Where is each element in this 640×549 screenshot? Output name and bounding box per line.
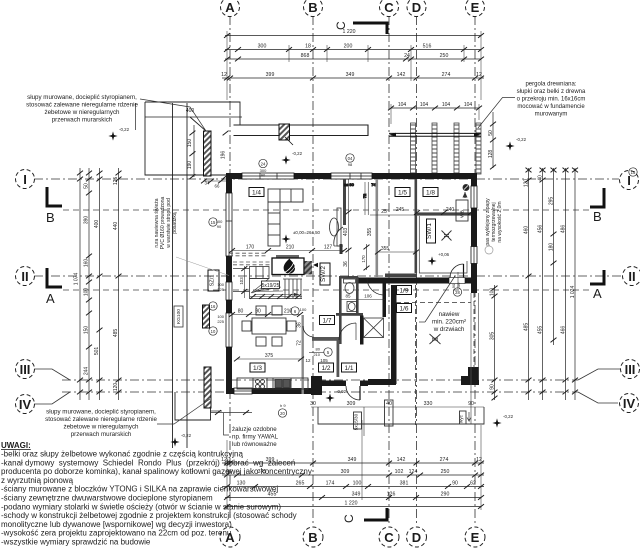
svg-text:40: 40	[538, 175, 544, 181]
svg-text:-wszystkie wymiary sprawdzić n: -wszystkie wymiary sprawdzić na budowie	[1, 538, 151, 547]
circle D top	[407, 0, 426, 17]
svg-text:36: 36	[297, 322, 303, 328]
sofa L-shaped	[268, 189, 303, 246]
svg-text:5x19/25: 5x19/25	[262, 283, 280, 289]
axis B vertical	[312, 16, 314, 526]
svg-text:o przekroju min. 16x16cm: o przekroju min. 16x16cm	[517, 97, 586, 103]
svg-text:180: 180	[549, 243, 555, 252]
svg-text:50: 50	[488, 130, 494, 136]
vestibule pier	[311, 376, 322, 395]
axis IV leader right	[578, 392, 618, 403]
svg-text:z wyrzutnią pionową: z wyrzutnią pionową	[1, 476, 74, 485]
bottom-left steps outline	[175, 392, 211, 420]
svg-text:IV: IV	[623, 396, 636, 411]
svg-text:62: 62	[470, 481, 476, 487]
svg-text:-ściany murowane z bloczków YT: -ściany murowane z bloczków YTONG i SILK…	[1, 485, 278, 494]
svg-text:C: C	[342, 514, 356, 523]
axis E vertical	[474, 16, 476, 526]
svg-text:16: 16	[211, 304, 216, 309]
terrace dim line	[145, 116, 242, 118]
svg-text:C: C	[384, 0, 394, 15]
TV wall element right side of living	[330, 208, 342, 246]
stairs label	[262, 281, 280, 289]
svg-text:B: B	[308, 0, 317, 15]
svg-text:-ściany zewnętrzne dwuwarstwow: -ściany zewnętrzne dwuwarstwowe docieplo…	[1, 494, 213, 503]
svg-text:128: 128	[488, 150, 494, 159]
svg-text:1/1: 1/1	[344, 365, 353, 372]
svg-text:485: 485	[524, 323, 530, 332]
svg-text:66: 66	[215, 184, 220, 189]
svg-text:120: 120	[524, 179, 530, 188]
axis IV horizontal	[62, 391, 578, 393]
svg-text:1 024: 1 024	[570, 286, 576, 299]
note zaluzje	[232, 426, 279, 448]
dining door arc	[303, 326, 314, 337]
dimension chain right	[493, 112, 575, 400]
gray duct note	[154, 197, 178, 250]
svg-text:SZ/1: SZ/1	[210, 275, 216, 287]
svg-text:90: 90	[261, 173, 266, 178]
svg-text:349: 349	[346, 72, 355, 78]
svg-text:1/3: 1/3	[253, 365, 262, 372]
svg-text:170: 170	[361, 255, 366, 263]
svg-text:min. 220cm²: min. 220cm²	[432, 319, 466, 326]
svg-text:15: 15	[631, 170, 636, 175]
svg-text:225: 225	[217, 287, 224, 292]
svg-text:455: 455	[538, 326, 544, 335]
circle II left	[16, 267, 35, 286]
marker C bottom	[364, 508, 387, 520]
svg-text:1/7: 1/7	[322, 318, 331, 325]
svg-text:24: 24	[261, 162, 266, 167]
shower	[364, 318, 384, 338]
circle C bottom	[379, 527, 399, 547]
circle III right	[621, 360, 640, 379]
svg-text:400: 400	[94, 220, 100, 229]
left path strip lines	[172, 103, 174, 448]
svg-text:lub równoważne: lub równoważne	[232, 441, 277, 448]
circle D bottom	[407, 527, 427, 547]
svg-text:90: 90	[490, 384, 496, 390]
svg-text:456: 456	[538, 225, 544, 234]
svg-text:+0,06: +0,06	[438, 252, 450, 257]
closet SZ1	[233, 266, 250, 298]
svg-text:355: 355	[381, 246, 390, 252]
svg-text:250: 250	[440, 53, 449, 59]
svg-text:309: 309	[341, 469, 350, 475]
svg-text:żaluzje ozdobne: żaluzje ozdobne	[232, 426, 277, 433]
entrance porch steps	[311, 400, 484, 436]
left wall	[226, 173, 232, 394]
svg-text:102: 102	[395, 469, 404, 475]
door jamb stairs	[340, 244, 343, 254]
svg-text:A: A	[46, 291, 55, 306]
svg-text:90: 90	[217, 224, 222, 229]
svg-text:80: 80	[238, 309, 244, 315]
circle E bottom	[465, 527, 485, 547]
svg-text:125: 125	[113, 177, 119, 186]
svg-text:przerwach murarskich: przerwach murarskich	[71, 431, 132, 438]
circle B top	[304, 0, 323, 17]
svg-text:D: D	[412, 530, 421, 545]
svg-text:225: 225	[217, 319, 224, 324]
svg-text:330: 330	[424, 401, 433, 407]
svg-text:90: 90	[255, 309, 261, 315]
svg-text:200: 200	[344, 44, 353, 50]
svg-text:245: 245	[396, 207, 405, 213]
svg-text:100: 100	[353, 481, 362, 487]
svg-text:E: E	[471, 0, 480, 15]
level marks	[108, 127, 526, 447]
svg-text:250: 250	[441, 469, 450, 475]
pergola dim row	[391, 107, 479, 109]
window top 1	[242, 173, 294, 179]
top wall	[226, 173, 477, 179]
svg-text:85: 85	[345, 294, 351, 299]
svg-text:-wysokość zera projektu zaproj: -wysokość zera projektu zaprojektowano n…	[1, 529, 231, 538]
svg-text:stosować zalewane nieregularne: stosować zalewane nieregularne rdzenie	[45, 416, 157, 423]
svg-text:150: 150	[187, 139, 193, 148]
pergola beam	[389, 132, 481, 134]
svg-text:305: 305	[490, 332, 496, 341]
window right	[471, 186, 477, 208]
retaining wall band	[234, 125, 369, 136]
svg-text:1/8: 1/8	[426, 190, 435, 197]
wall living/hall	[343, 179, 346, 225]
svg-text:SW/1: SW/1	[426, 223, 433, 239]
svg-text:100: 100	[490, 288, 496, 297]
svg-text:E: E	[471, 530, 480, 545]
svg-text:-0,22: -0,22	[292, 151, 303, 156]
axis IV leader left	[34, 392, 70, 404]
svg-text:żebetowe w nieregularnych: żebetowe w nieregularnych	[45, 109, 121, 116]
svg-text:pergola drewniana:: pergola drewniana:	[525, 82, 576, 88]
svg-text:25: 25	[381, 209, 387, 215]
dining table with chairs	[242, 306, 296, 346]
niche lines hall	[364, 182, 366, 215]
svg-text:-schody w konstrukcji żelbetow: -schody w konstrukcji żelbetowej zgodnie…	[1, 511, 297, 520]
drain SW1	[442, 231, 452, 241]
wall house right vertical	[391, 285, 397, 384]
svg-text:868: 868	[301, 53, 310, 59]
svg-text:12: 12	[476, 457, 482, 463]
svg-text:III: III	[625, 362, 636, 377]
svg-text:przerwach murarskich: przerwach murarskich	[52, 117, 113, 124]
svg-text:-kanał dymowy systemowy Schi: -kanał dymowy systemowy Schiedel Rondo P…	[1, 458, 295, 467]
window top 2	[331, 173, 372, 179]
circle A bottom	[220, 527, 240, 547]
marker A right	[590, 270, 604, 284]
svg-text:stosować zalewane nieregularne: stosować zalewane nieregularne rdzenie	[26, 102, 138, 109]
svg-text:nawiew: nawiew	[439, 311, 460, 318]
svg-text:40: 40	[386, 401, 392, 407]
note pillars top-left	[26, 94, 138, 124]
pergola post 2	[432, 123, 437, 174]
svg-text:104: 104	[464, 102, 473, 108]
terrace outline top-left	[145, 102, 240, 125]
dimension chain left	[80, 168, 119, 400]
svg-text:C: C	[384, 530, 394, 545]
svg-text:174: 174	[326, 481, 335, 487]
bath door arc	[339, 323, 356, 340]
svg-text:producenta po doborze kominka): producenta po doborze kominka), kanał sp…	[1, 467, 312, 476]
svg-text:1/5: 1/5	[398, 190, 407, 197]
door arc SW1	[450, 264, 464, 278]
svg-text:440: 440	[113, 222, 119, 231]
svg-text:-0,22: -0,22	[516, 137, 527, 142]
circle E top	[466, 0, 485, 17]
pergola post 1	[411, 123, 416, 174]
svg-text:12: 12	[305, 358, 311, 363]
axis II horizontal	[34, 275, 622, 277]
svg-text:196: 196	[220, 151, 226, 160]
dimension chain bottom	[222, 420, 484, 510]
svg-text:403: 403	[343, 228, 349, 237]
svg-text:104: 104	[398, 102, 407, 108]
svg-text:210: 210	[286, 245, 295, 251]
svg-text:1/6: 1/6	[399, 306, 408, 313]
svg-text:120: 120	[113, 383, 119, 392]
svg-text:142: 142	[397, 72, 406, 78]
vestibule bottom wall	[322, 381, 346, 387]
svg-text:72: 72	[362, 193, 367, 198]
svg-text:h 9: h 9	[280, 403, 286, 408]
svg-text:1/9: 1/9	[399, 288, 408, 295]
marker C top	[353, 23, 387, 34]
axis A vertical	[229, 16, 231, 526]
svg-text:wyc: wyc	[459, 414, 464, 423]
hatched pillar mid-left	[203, 305, 210, 328]
dark block right of fireplace	[305, 261, 313, 275]
svg-text:103: 103	[239, 277, 244, 285]
winder treads	[251, 279, 283, 294]
svg-text:II: II	[21, 269, 28, 284]
svg-text:-podano wymiary stolarki w świ: -podano wymiary stolarki w świetle oście…	[1, 502, 281, 511]
svg-text:240: 240	[446, 207, 455, 213]
svg-text:5x15/30: 5x15/30	[354, 413, 359, 430]
svg-text:486: 486	[561, 225, 567, 234]
section line A-A	[63, 289, 593, 291]
bathroom fixtures	[341, 279, 385, 338]
circle I right	[620, 171, 639, 190]
svg-text:170: 170	[246, 245, 255, 251]
note nawiew	[432, 311, 466, 333]
svg-text:460: 460	[524, 226, 530, 235]
svg-text:18: 18	[305, 44, 311, 50]
svg-text:190: 190	[187, 161, 193, 170]
svg-text:400: 400	[186, 108, 195, 114]
svg-text:290: 290	[441, 492, 450, 498]
svg-text:36: 36	[343, 261, 349, 267]
svg-text:w drzwiach: w drzwiach	[433, 326, 465, 333]
middle wall (house/garage separation)	[358, 278, 471, 284]
terrace inner dim vertical	[193, 125, 195, 177]
chimney on retaining wall	[279, 124, 290, 140]
svg-text:106: 106	[364, 294, 372, 299]
svg-text:monolityczne lub dywanowe [wsp: monolityczne lub dywanowe [wspornikowe] …	[1, 520, 232, 529]
window bottom kitchen	[234, 388, 252, 394]
svg-text:B: B	[308, 530, 317, 545]
svg-text:III: III	[20, 362, 31, 377]
axis III leader right	[578, 369, 620, 380]
svg-text:399: 399	[266, 72, 275, 78]
dimension chain top	[222, 31, 484, 100]
wall 1-5 / 1-8	[415, 179, 418, 273]
svg-text:390: 390	[84, 216, 90, 225]
svg-text:300: 300	[258, 44, 267, 50]
svg-text:posadzką: posadzką	[172, 212, 178, 234]
svg-text:ns 90: ns 90	[344, 182, 355, 187]
svg-text:±0,00=264,50: ±0,00=264,50	[293, 230, 321, 235]
window right 2	[471, 247, 477, 264]
svg-text:20: 20	[280, 411, 285, 416]
svg-text:słupki oraz belki z drewna: słupki oraz belki z drewna	[517, 89, 586, 95]
marker B left	[47, 187, 62, 206]
SW1 inner finish lines	[419, 216, 467, 273]
svg-text:np. firmy YAWAL: np. firmy YAWAL	[232, 434, 279, 441]
svg-text:IV: IV	[19, 397, 32, 412]
kitchen counter with stove and sink	[237, 378, 308, 389]
svg-text:309: 309	[347, 401, 356, 407]
svg-text:II: II	[628, 269, 635, 284]
gray note right	[485, 198, 503, 246]
terrace diagonal	[190, 117, 206, 131]
svg-text:210: 210	[313, 352, 320, 357]
pergola post 3	[454, 123, 459, 174]
svg-text:1/4: 1/4	[252, 190, 261, 197]
extension lines	[226, 31, 228, 100]
right wall E	[471, 173, 477, 293]
svg-text:B: B	[593, 209, 602, 224]
svg-text:375: 375	[265, 353, 274, 359]
svg-text:murowanym: murowanym	[535, 112, 568, 118]
garage open side dashes	[473, 293, 475, 368]
sink	[275, 380, 282, 388]
bottom wall right part	[368, 379, 396, 385]
svg-text:90: 90	[468, 401, 474, 407]
svg-text:WB: WB	[460, 210, 466, 218]
svg-text:-0,22: -0,22	[119, 127, 130, 132]
note pergola	[517, 82, 586, 118]
svg-text:104: 104	[442, 102, 451, 108]
svg-text:349: 349	[352, 492, 361, 498]
svg-text:12: 12	[221, 72, 227, 78]
svg-text:274: 274	[442, 72, 451, 78]
circle C top	[380, 0, 399, 17]
svg-text:355: 355	[367, 228, 373, 237]
left wall window labels	[217, 282, 224, 324]
wall 1-8 / SW1 horizontal	[417, 213, 471, 216]
svg-text:30: 30	[310, 401, 316, 407]
svg-text:12: 12	[476, 72, 482, 78]
svg-text:90: 90	[452, 481, 458, 487]
hatched pillar bottom-left	[204, 367, 211, 408]
svg-text:24: 24	[404, 53, 410, 59]
straight treads	[284, 279, 286, 299]
svg-text:265: 265	[296, 481, 305, 487]
flame icon	[284, 259, 295, 274]
bath cluster walls	[339, 276, 342, 344]
axis III horizontal	[62, 379, 578, 381]
svg-text:274: 274	[440, 457, 449, 463]
pergola post 4	[476, 123, 481, 174]
svg-text:150: 150	[84, 326, 90, 335]
svg-text:słupy murowane, docieplić styr: słupy murowane, docieplić styropianem,	[46, 409, 156, 416]
marker B right	[590, 188, 604, 207]
svg-text:295: 295	[549, 197, 555, 206]
svg-text:1 220: 1 220	[345, 501, 358, 507]
svg-text:80: 80	[316, 347, 321, 352]
WC door arc	[367, 278, 384, 295]
svg-text:A: A	[593, 286, 602, 301]
garage corner column	[461, 367, 479, 385]
svg-text:10: 10	[211, 329, 216, 334]
wall hall/1-5 vertical gray	[376, 179, 379, 277]
circle IV right	[620, 394, 639, 413]
svg-text:124: 124	[409, 469, 418, 475]
svg-text:100: 100	[300, 307, 307, 312]
svg-text:B: B	[46, 210, 55, 225]
staircase	[250, 267, 303, 299]
svg-text:98: 98	[348, 162, 353, 167]
svg-text:160: 160	[84, 259, 90, 268]
axis I horizontal	[34, 178, 619, 180]
circle B bottom	[303, 527, 323, 547]
svg-text:142: 142	[397, 457, 406, 463]
svg-text:244: 244	[84, 367, 90, 376]
svg-text:D: D	[412, 0, 421, 15]
svg-text:SW/2: SW/2	[320, 266, 327, 282]
stair tread dims	[250, 296, 302, 298]
svg-text:1/2: 1/2	[321, 365, 330, 372]
marker A left	[47, 268, 62, 287]
axis D vertical	[416, 16, 418, 526]
svg-text:04: 04	[348, 156, 353, 161]
svg-text:127: 127	[324, 245, 333, 251]
svg-text:-0,22: -0,22	[181, 433, 192, 438]
axis C vertical	[388, 16, 390, 526]
svg-text:1 220: 1 220	[343, 29, 356, 35]
svg-text:104: 104	[420, 102, 429, 108]
drain garage	[430, 334, 441, 344]
svg-text:485: 485	[113, 329, 119, 338]
toilet	[344, 279, 356, 283]
circle I left	[16, 170, 35, 189]
stove	[256, 380, 260, 384]
bottom wall left part	[226, 388, 322, 394]
svg-text:516: 516	[423, 44, 432, 50]
svg-text:50: 50	[84, 183, 90, 189]
room number labels	[208, 188, 438, 373]
svg-text:słupy murowane, docieplić styr: słupy murowane, docieplić styropianem,	[27, 94, 137, 101]
svg-text:381: 381	[400, 481, 409, 487]
section line B-B	[63, 209, 593, 211]
svg-text:-0,22: -0,22	[503, 414, 514, 419]
svg-text:mocować w fundamencie: mocować w fundamencie	[517, 104, 585, 110]
door living	[334, 227, 343, 246]
svg-text:na wysokość 2,0m: na wysokość 2,0m	[497, 201, 503, 242]
svg-text:100: 100	[84, 288, 90, 297]
KG100	[174, 306, 183, 327]
circle A top	[221, 0, 240, 17]
note pillars bottom-left	[45, 409, 157, 439]
svg-text:349: 349	[348, 457, 357, 463]
bath dims	[341, 299, 385, 301]
svg-text:126: 126	[387, 492, 396, 498]
hatched pillar top-left	[204, 131, 212, 176]
axis III leader left	[34, 369, 70, 380]
corridor dim	[366, 244, 368, 270]
